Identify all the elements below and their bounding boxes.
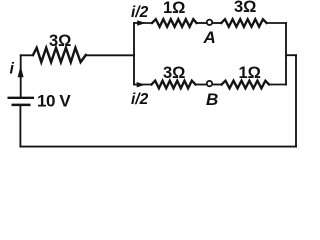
svg-text:1Ω: 1Ω: [163, 0, 185, 17]
node A circle: [207, 20, 212, 25]
svg-text:i: i: [10, 61, 15, 78]
svg-text:i/2: i/2: [131, 91, 149, 108]
arrow current i/2 top branch: [137, 20, 146, 25]
wire from 3ohm to junction: [86, 54, 134, 56]
resistor 3ohm bottom branch: [152, 81, 196, 89]
arrow current i/2 bottom branch: [137, 82, 146, 87]
resistor 3ohm top branch: [221, 19, 266, 27]
wire left vertical from top corner to battery: [20, 55, 22, 96]
svg-text:10 V: 10 V: [37, 92, 71, 111]
wire top branch right lead: [267, 22, 286, 24]
wire stub to outer loop: [286, 54, 296, 56]
resistor 1ohm top branch: [152, 19, 197, 27]
wire parallel-section left vertical: [133, 23, 135, 85]
wire bottom branch right lead: [269, 84, 286, 86]
svg-text:3Ω: 3Ω: [234, 0, 256, 16]
node B circle: [207, 81, 212, 86]
svg-text:3Ω: 3Ω: [49, 32, 71, 50]
resistor R 3ohm main: [33, 48, 86, 62]
wire outer right vertical: [295, 55, 297, 146]
arrow current i up: [18, 66, 24, 77]
wire bottom branch lead: [134, 84, 152, 86]
battery V1 10V long plate: [8, 97, 35, 99]
svg-text:1Ω: 1Ω: [239, 64, 261, 82]
wire battery bottom to return: [19, 106, 21, 147]
wire top branch lead: [134, 22, 152, 24]
wire node A to 3ohm: [212, 22, 221, 24]
wire parallel-section right vertical: [285, 23, 287, 85]
svg-text:3Ω: 3Ω: [163, 64, 185, 82]
svg-text:A: A: [203, 28, 216, 47]
battery V1 10V short plate: [12, 104, 31, 107]
svg-text:B: B: [206, 90, 218, 109]
resistor 1ohm bottom branch: [222, 81, 269, 89]
wire 1ohm to node A: [197, 22, 207, 24]
wire top-left horizontal: [21, 54, 33, 56]
svg-text:i/2: i/2: [131, 4, 149, 21]
wire node B to 1ohm: [212, 84, 222, 86]
wire 3ohm to node B: [196, 84, 207, 86]
wire bottom return: [20, 146, 296, 148]
